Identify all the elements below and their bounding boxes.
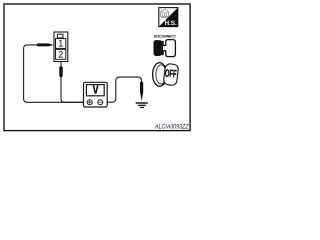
svg-text:1: 1	[58, 39, 63, 49]
terminal cell 1	[56, 39, 66, 49]
svg-text:DISCONNECT: DISCONNECT	[154, 34, 177, 39]
svg-text:ALCIA0093ZZ: ALCIA0093ZZ	[154, 124, 189, 130]
disconnect icon: female connector half (outline)	[163, 40, 176, 57]
ignition OFF icon: knob	[153, 63, 179, 87]
tiny connector sketch inside H.S. icon	[160, 10, 168, 18]
border frame	[4, 4, 190, 131]
test probe C (to ground)	[140, 82, 143, 102]
disconnect icon: male connector half (black)	[154, 40, 164, 56]
wire: left loop from probe A to voltmeter plus terminal	[24, 45, 88, 102]
wire: from probe B down to voltmeter plus terminal	[61, 77, 87, 103]
wire: from voltmeter minus terminal to ground probe	[103, 77, 142, 102]
connector latch	[57, 34, 63, 38]
ignition OFF icon: key head	[163, 63, 179, 85]
voltmeter V	[84, 82, 108, 107]
ground symbol	[136, 103, 148, 107]
svg-text:2: 2	[58, 50, 63, 60]
H.S. (harness side probing) icon	[159, 8, 178, 27]
test probe B (vertical, at connector terminal 2)	[59, 62, 62, 77]
plus terminal	[87, 100, 92, 105]
svg-text:OFF: OFF	[165, 68, 178, 81]
svg-text:H.S.: H.S.	[165, 21, 177, 27]
test probe A (horizontal, at connector terminal 1)	[37, 43, 54, 46]
connector (terminals 1 and 2)	[54, 32, 68, 62]
terminal cell 2	[56, 49, 66, 59]
minus terminal	[98, 100, 103, 105]
